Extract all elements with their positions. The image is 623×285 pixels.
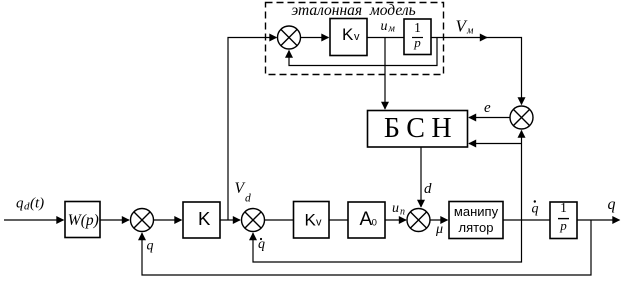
- svg-text:манипу: манипу: [454, 204, 499, 219]
- svg-text:u: u: [392, 201, 399, 216]
- svg-text:q: q: [532, 202, 539, 217]
- svg-text:K: K: [198, 208, 211, 229]
- svg-text:v: v: [354, 31, 360, 43]
- svg-text:d: d: [424, 181, 432, 197]
- svg-text:q: q: [16, 196, 24, 212]
- svg-text:1: 1: [414, 20, 421, 35]
- svg-text:(t): (t): [30, 196, 44, 212]
- svg-text:d: d: [245, 193, 251, 205]
- svg-text:p: p: [559, 218, 567, 233]
- svg-text:q: q: [608, 196, 616, 213]
- svg-text:0: 0: [372, 218, 377, 229]
- svg-text:K: K: [305, 211, 317, 230]
- svg-text:БСН: БСН: [384, 113, 458, 144]
- svg-text:V: V: [235, 180, 246, 197]
- svg-text:лятор: лятор: [459, 220, 494, 235]
- svg-text:W(p): W(p): [68, 212, 99, 229]
- svg-text:e: e: [484, 100, 491, 116]
- svg-text:q: q: [147, 239, 154, 254]
- svg-text:м: м: [466, 26, 474, 37]
- svg-text:K: K: [342, 25, 354, 44]
- svg-text:p: p: [413, 35, 421, 50]
- svg-text:μ: μ: [435, 222, 443, 237]
- svg-text:A: A: [360, 209, 373, 230]
- svg-text:u: u: [381, 19, 388, 34]
- svg-text:эталонная модель: эталонная модель: [291, 2, 415, 19]
- svg-text:1: 1: [560, 200, 567, 215]
- svg-text:м: м: [388, 24, 396, 35]
- svg-text:п: п: [400, 207, 405, 218]
- svg-text:v: v: [316, 217, 322, 229]
